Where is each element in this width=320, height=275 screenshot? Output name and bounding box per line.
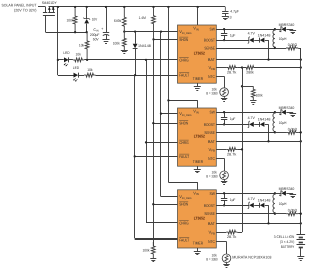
SHDN bus wire bbox=[153, 39, 155, 246]
node gate-R2 bbox=[74, 31, 76, 33]
svg-text:SENSE: SENSE bbox=[204, 46, 215, 51]
node rail-D1 bbox=[86, 6, 88, 8]
svg-text:(20V TO 32V): (20V TO 32V) bbox=[14, 8, 37, 12]
svg-text:FAULT: FAULT bbox=[179, 154, 189, 159]
battery label bbox=[274, 235, 295, 249]
transistor Q1 Si4401DY bbox=[42, 1, 57, 15]
node gate-D1-R3 bbox=[86, 31, 88, 33]
resistor R1s 0.05 ohm bbox=[275, 43, 301, 60]
svg-text:BAT: BAT bbox=[208, 221, 216, 226]
wire U2 SW bbox=[216, 112, 275, 114]
VFB common node wire bbox=[242, 68, 244, 233]
svg-text:NTC: NTC bbox=[208, 74, 215, 79]
node VIN_REG bus tap bbox=[160, 30, 162, 32]
wire VIN_REG to U2 bbox=[161, 113, 178, 115]
wire U2 VFB bbox=[216, 149, 226, 151]
node L3-SENSE bbox=[274, 213, 276, 215]
wire boost chain to BAT1 bbox=[268, 40, 270, 60]
svg-text:Si4401DY: Si4401DY bbox=[42, 1, 57, 5]
node CHRG bus tap bbox=[145, 59, 147, 61]
svg-text:MBRS340: MBRS340 bbox=[279, 106, 295, 110]
node divider R5/R6 bbox=[123, 30, 125, 32]
svg-text:BAT: BAT bbox=[208, 139, 216, 144]
wire U3 SENSE bbox=[216, 213, 275, 215]
svg-text:CHRG: CHRG bbox=[179, 221, 189, 226]
op-amp U2 LT3652 body bbox=[178, 108, 217, 166]
node VIN bus U2 tap bbox=[167, 99, 169, 101]
wire SHDN to U3 bbox=[153, 204, 177, 206]
wire D2 to FAULT line bbox=[135, 49, 137, 76]
wire U1 SENSE bbox=[216, 48, 275, 50]
svg-text:MBRS340: MBRS340 bbox=[279, 23, 295, 27]
resistor R4 10k (CHRG LED) bbox=[73, 53, 84, 62]
ground under battery bbox=[297, 257, 304, 261]
gate line wire bbox=[46, 32, 87, 34]
resistor R1f 28.7k bbox=[226, 66, 242, 75]
svg-text:VIN: VIN bbox=[193, 190, 199, 196]
resistor R11 280k bbox=[242, 66, 301, 75]
top VIN rail bbox=[49, 6, 226, 8]
inductor L1 10uH bbox=[273, 29, 287, 48]
wire U1 BAT bbox=[216, 59, 300, 61]
node SHDN bus U3 bbox=[152, 203, 154, 205]
svg-text:LT3652: LT3652 bbox=[194, 51, 206, 56]
svg-text:VIN: VIN bbox=[193, 26, 199, 32]
U2 TIMER ground bbox=[194, 166, 201, 172]
resistor R3f 28.7k bbox=[226, 230, 242, 239]
svg-text:CHRG: CHRG bbox=[179, 57, 189, 62]
node BAT3-boost bbox=[267, 222, 269, 224]
node L2-SENSE bbox=[274, 131, 276, 133]
node SHDN-R7-bus bbox=[152, 38, 154, 40]
diode D1c 1N4148 bbox=[258, 33, 271, 42]
resistor R6 100k bbox=[113, 32, 127, 51]
diode D1a MBRS340 bbox=[275, 23, 296, 34]
svg-text:BOOST: BOOST bbox=[204, 122, 215, 127]
capacitor C2 4.7uF x3 bbox=[222, 7, 240, 20]
op-amp U1 LT3652 body bbox=[178, 25, 217, 83]
svg-text:FAULT: FAULT bbox=[179, 73, 189, 78]
resistor R2 100k gate pulldown bbox=[67, 7, 78, 32]
node SHDN bus U2 bbox=[152, 122, 154, 124]
capacitor C3b 1uF bbox=[221, 192, 236, 206]
svg-text:10k: 10k bbox=[76, 53, 81, 57]
svg-text:LED: LED bbox=[63, 51, 69, 55]
zener D1 10V bbox=[83, 7, 97, 32]
wire U3 BAT bbox=[216, 223, 300, 225]
ground under R9 bbox=[150, 259, 156, 262]
resistor R10 100k (divider) bbox=[242, 86, 263, 104]
diode D2c 1N4148 bbox=[258, 118, 271, 127]
zener D2b 4.7V bbox=[248, 116, 260, 128]
svg-text:10µH: 10µH bbox=[279, 121, 287, 125]
node rail-VIN bus bbox=[167, 6, 169, 8]
node L1-SENSE bbox=[274, 47, 276, 49]
battery BT1 bbox=[297, 235, 306, 257]
wire input to Q1 bbox=[38, 6, 46, 8]
wire CHRG to U2 bbox=[146, 142, 178, 144]
thermistor RT2 10k bbox=[206, 158, 228, 184]
svg-text:1N4148: 1N4148 bbox=[258, 33, 271, 37]
node FAULT-D2-bus bbox=[134, 74, 136, 76]
svg-text:×3: ×3 bbox=[227, 16, 231, 20]
svg-text:SHDN: SHDN bbox=[179, 202, 188, 207]
svg-text:100k: 100k bbox=[256, 93, 263, 97]
svg-text:100k: 100k bbox=[143, 249, 150, 253]
resistor R2f 28.7k bbox=[226, 148, 242, 157]
wire VIN_REG line bbox=[124, 31, 177, 33]
node rail-R5 bbox=[123, 6, 125, 8]
inductor L3 10uH bbox=[273, 193, 287, 213]
svg-text:BOOST: BOOST bbox=[204, 203, 215, 208]
label MURATA NCP18XH103 bbox=[232, 256, 271, 260]
node CHRG bus U2 bbox=[145, 141, 147, 143]
svg-text:B = 3380: B = 3380 bbox=[206, 92, 217, 96]
svg-text:100k: 100k bbox=[113, 42, 120, 46]
solar panel input label bbox=[2, 4, 38, 13]
diode D3a MBRS340 bbox=[275, 187, 296, 198]
svg-text:LED: LED bbox=[73, 66, 79, 70]
LED D4 (FAULT) bbox=[58, 66, 84, 82]
zener D3b 4.7V bbox=[248, 197, 260, 209]
svg-text:SHDN: SHDN bbox=[179, 121, 188, 126]
op-amp U3 LT3652 body bbox=[178, 190, 217, 248]
wire FAULT to U2 bbox=[135, 156, 178, 158]
resistor R8 10k (FAULT LED) bbox=[84, 68, 96, 77]
svg-text:FAULT: FAULT bbox=[179, 237, 189, 242]
zener D1b 4.7V bbox=[248, 32, 260, 44]
svg-text:1µF: 1µF bbox=[230, 33, 236, 37]
svg-text:4.7V: 4.7V bbox=[248, 197, 256, 201]
node VIN_REG-D2 bbox=[134, 30, 136, 32]
svg-text:TIMER: TIMER bbox=[193, 76, 203, 81]
node SW3 bbox=[274, 192, 276, 194]
wire U2 BOOST bbox=[216, 124, 249, 126]
svg-text:10k: 10k bbox=[79, 43, 84, 47]
svg-text:TIMER: TIMER bbox=[193, 159, 203, 164]
svg-text:0.05Ω: 0.05Ω bbox=[288, 127, 298, 131]
svg-text:MBRS340: MBRS340 bbox=[279, 187, 295, 191]
svg-text:28.7k: 28.7k bbox=[227, 152, 237, 156]
capacitor CIN 200uF 50V bbox=[90, 7, 110, 44]
CHRG bus wire bbox=[146, 60, 178, 223]
svg-text:SENSE: SENSE bbox=[204, 130, 215, 135]
svg-text:10µH: 10µH bbox=[279, 37, 287, 41]
wire U3 SW bbox=[216, 193, 275, 195]
svg-text:SW: SW bbox=[210, 191, 216, 196]
node SW2 bbox=[274, 111, 276, 113]
diode D3c 1N4148 bbox=[258, 199, 271, 208]
ground under R6 bbox=[121, 51, 128, 54]
svg-text:SHDN: SHDN bbox=[179, 37, 188, 42]
svg-text:10k: 10k bbox=[87, 68, 92, 72]
node LED column CHRG row bbox=[57, 59, 59, 61]
node rail-R7 bbox=[152, 6, 154, 8]
node rail-CIN bbox=[105, 6, 107, 8]
node BAT1-boost bbox=[267, 58, 269, 60]
node rail-sense2 bbox=[300, 131, 302, 133]
capacitor C2b 1uF bbox=[221, 111, 236, 126]
svg-text:200µF: 200µF bbox=[90, 33, 100, 37]
resistor R3s 0.05 ohm bbox=[275, 209, 301, 224]
battery rail wire bbox=[300, 48, 302, 235]
node 280k-rail bbox=[300, 66, 302, 68]
VIN bus wire bbox=[168, 7, 170, 182]
wire boost chain to BAT2 bbox=[268, 124, 270, 141]
svg-text:3-CELL Li-ION: 3-CELL Li-ION bbox=[274, 235, 295, 239]
svg-text:NTC: NTC bbox=[208, 156, 215, 161]
node rail-R2 bbox=[74, 6, 76, 8]
svg-text:1N4148: 1N4148 bbox=[258, 199, 271, 203]
svg-text:BAT: BAT bbox=[208, 57, 216, 62]
thermistor RT1 10k bbox=[206, 76, 228, 101]
svg-text:SENSE: SENSE bbox=[204, 211, 215, 216]
svg-text:BOOST: BOOST bbox=[204, 38, 215, 43]
svg-text:BATTERY: BATTERY bbox=[281, 245, 295, 249]
node VFB2 bbox=[241, 148, 243, 150]
node rail-sense3 bbox=[300, 213, 302, 215]
VIN_REG bus wire bbox=[161, 32, 178, 197]
VIN bus to U2 bbox=[168, 100, 197, 108]
svg-text:10V: 10V bbox=[92, 18, 98, 22]
node rail-U1 VIN bbox=[197, 6, 199, 8]
resistor R2s 0.05 ohm bbox=[275, 127, 301, 141]
FAULT bus wire bbox=[135, 75, 178, 238]
svg-text:VFB: VFB bbox=[209, 65, 215, 71]
node VIN_REG bus U2 bbox=[160, 112, 162, 114]
svg-text:28.7k: 28.7k bbox=[227, 235, 237, 239]
wire Q1 gate bbox=[45, 15, 47, 32]
svg-text:1N4148: 1N4148 bbox=[258, 118, 271, 122]
svg-text:4.7µF: 4.7µF bbox=[230, 10, 239, 14]
svg-text:VIN: VIN bbox=[193, 109, 199, 115]
wire LED column bbox=[57, 7, 59, 75]
svg-text:50V: 50V bbox=[93, 38, 99, 42]
wire U2 BAT bbox=[216, 141, 300, 143]
wire U3 BOOST bbox=[216, 205, 249, 207]
LED D3 (CHRG) bbox=[58, 51, 73, 66]
svg-text:SW: SW bbox=[210, 27, 216, 32]
node VFB1 bbox=[241, 66, 243, 68]
wire FAULT to U3 bbox=[135, 239, 178, 241]
U1 TIMER ground bbox=[194, 83, 201, 90]
U3 TIMER ground bbox=[194, 248, 201, 255]
svg-text:CHRG: CHRG bbox=[179, 140, 189, 145]
wire boost chain to BAT3 bbox=[268, 205, 270, 223]
svg-text:0.05Ω: 0.05Ω bbox=[288, 43, 298, 47]
wire U1 VIN drop bbox=[197, 7, 199, 25]
wire U1 BOOST bbox=[216, 40, 249, 42]
svg-text:VFB: VFB bbox=[209, 230, 215, 236]
svg-text:B = 3380: B = 3380 bbox=[206, 175, 217, 179]
node SW1 bbox=[274, 28, 276, 30]
wire CHRG line bbox=[84, 59, 177, 61]
wire U1 VFB bbox=[216, 67, 226, 69]
svg-text:4.7V: 4.7V bbox=[248, 116, 256, 120]
diode D2a MBRS340 bbox=[275, 106, 296, 117]
svg-text:B = 3380: B = 3380 bbox=[206, 258, 217, 262]
svg-text:LT3652: LT3652 bbox=[194, 134, 206, 139]
VIN bus to U3 bbox=[168, 182, 197, 190]
resistor R3 10k bbox=[79, 32, 89, 60]
node BAT3-rail bbox=[300, 222, 302, 224]
diode D2 1N4148 bbox=[133, 32, 151, 49]
svg-text:28.7k: 28.7k bbox=[227, 71, 237, 75]
wire FAULT line bbox=[96, 75, 178, 77]
node FAULT bus U2 bbox=[134, 155, 136, 157]
node rail-LED column bbox=[57, 6, 59, 8]
svg-text:MURATA NCP18XH103: MURATA NCP18XH103 bbox=[232, 256, 271, 260]
wire SHDN line bbox=[154, 39, 178, 41]
resistor R5 649k bbox=[114, 7, 126, 32]
svg-text:280k: 280k bbox=[246, 70, 254, 74]
svg-text:SOLAR PANEL INPUT: SOLAR PANEL INPUT bbox=[2, 4, 38, 8]
svg-text:LT3652: LT3652 bbox=[194, 216, 206, 221]
wire SHDN to U2 bbox=[153, 123, 177, 125]
svg-text:1N4148: 1N4148 bbox=[138, 44, 151, 48]
resistor R7 1.4M bbox=[139, 7, 156, 39]
node BAT2-boost bbox=[267, 140, 269, 142]
svg-text:4.7V: 4.7V bbox=[248, 32, 256, 36]
node VFB-100k tap bbox=[241, 85, 243, 87]
wire U3 VFB bbox=[216, 232, 226, 234]
capacitor C1b 1uF bbox=[221, 28, 236, 41]
node BAT1-rail bbox=[300, 58, 302, 60]
svg-text:100k: 100k bbox=[67, 19, 74, 23]
svg-text:1.4M: 1.4M bbox=[139, 16, 146, 20]
thermistor RT3 10k bbox=[206, 242, 231, 268]
svg-text:1µF: 1µF bbox=[230, 198, 236, 202]
svg-text:10µH: 10µH bbox=[279, 202, 287, 206]
svg-text:1µF: 1µF bbox=[230, 117, 236, 121]
resistor R9 100k (SHDN) bbox=[143, 242, 156, 258]
svg-text:NTC: NTC bbox=[208, 239, 215, 244]
node CHRG-R3 bbox=[86, 59, 88, 61]
svg-text:TIMER: TIMER bbox=[193, 241, 203, 246]
svg-text:649k: 649k bbox=[114, 19, 122, 23]
svg-text:0.05Ω: 0.05Ω bbox=[288, 209, 298, 213]
svg-text:SW: SW bbox=[210, 110, 216, 115]
wire U2 SENSE bbox=[216, 132, 275, 134]
svg-text:(3 × 4.2V): (3 × 4.2V) bbox=[280, 240, 294, 244]
inductor L2 10uH bbox=[273, 112, 287, 132]
wire U1 SW bbox=[216, 29, 275, 31]
svg-text:VFB: VFB bbox=[209, 147, 215, 153]
node BAT2-rail bbox=[300, 140, 302, 142]
